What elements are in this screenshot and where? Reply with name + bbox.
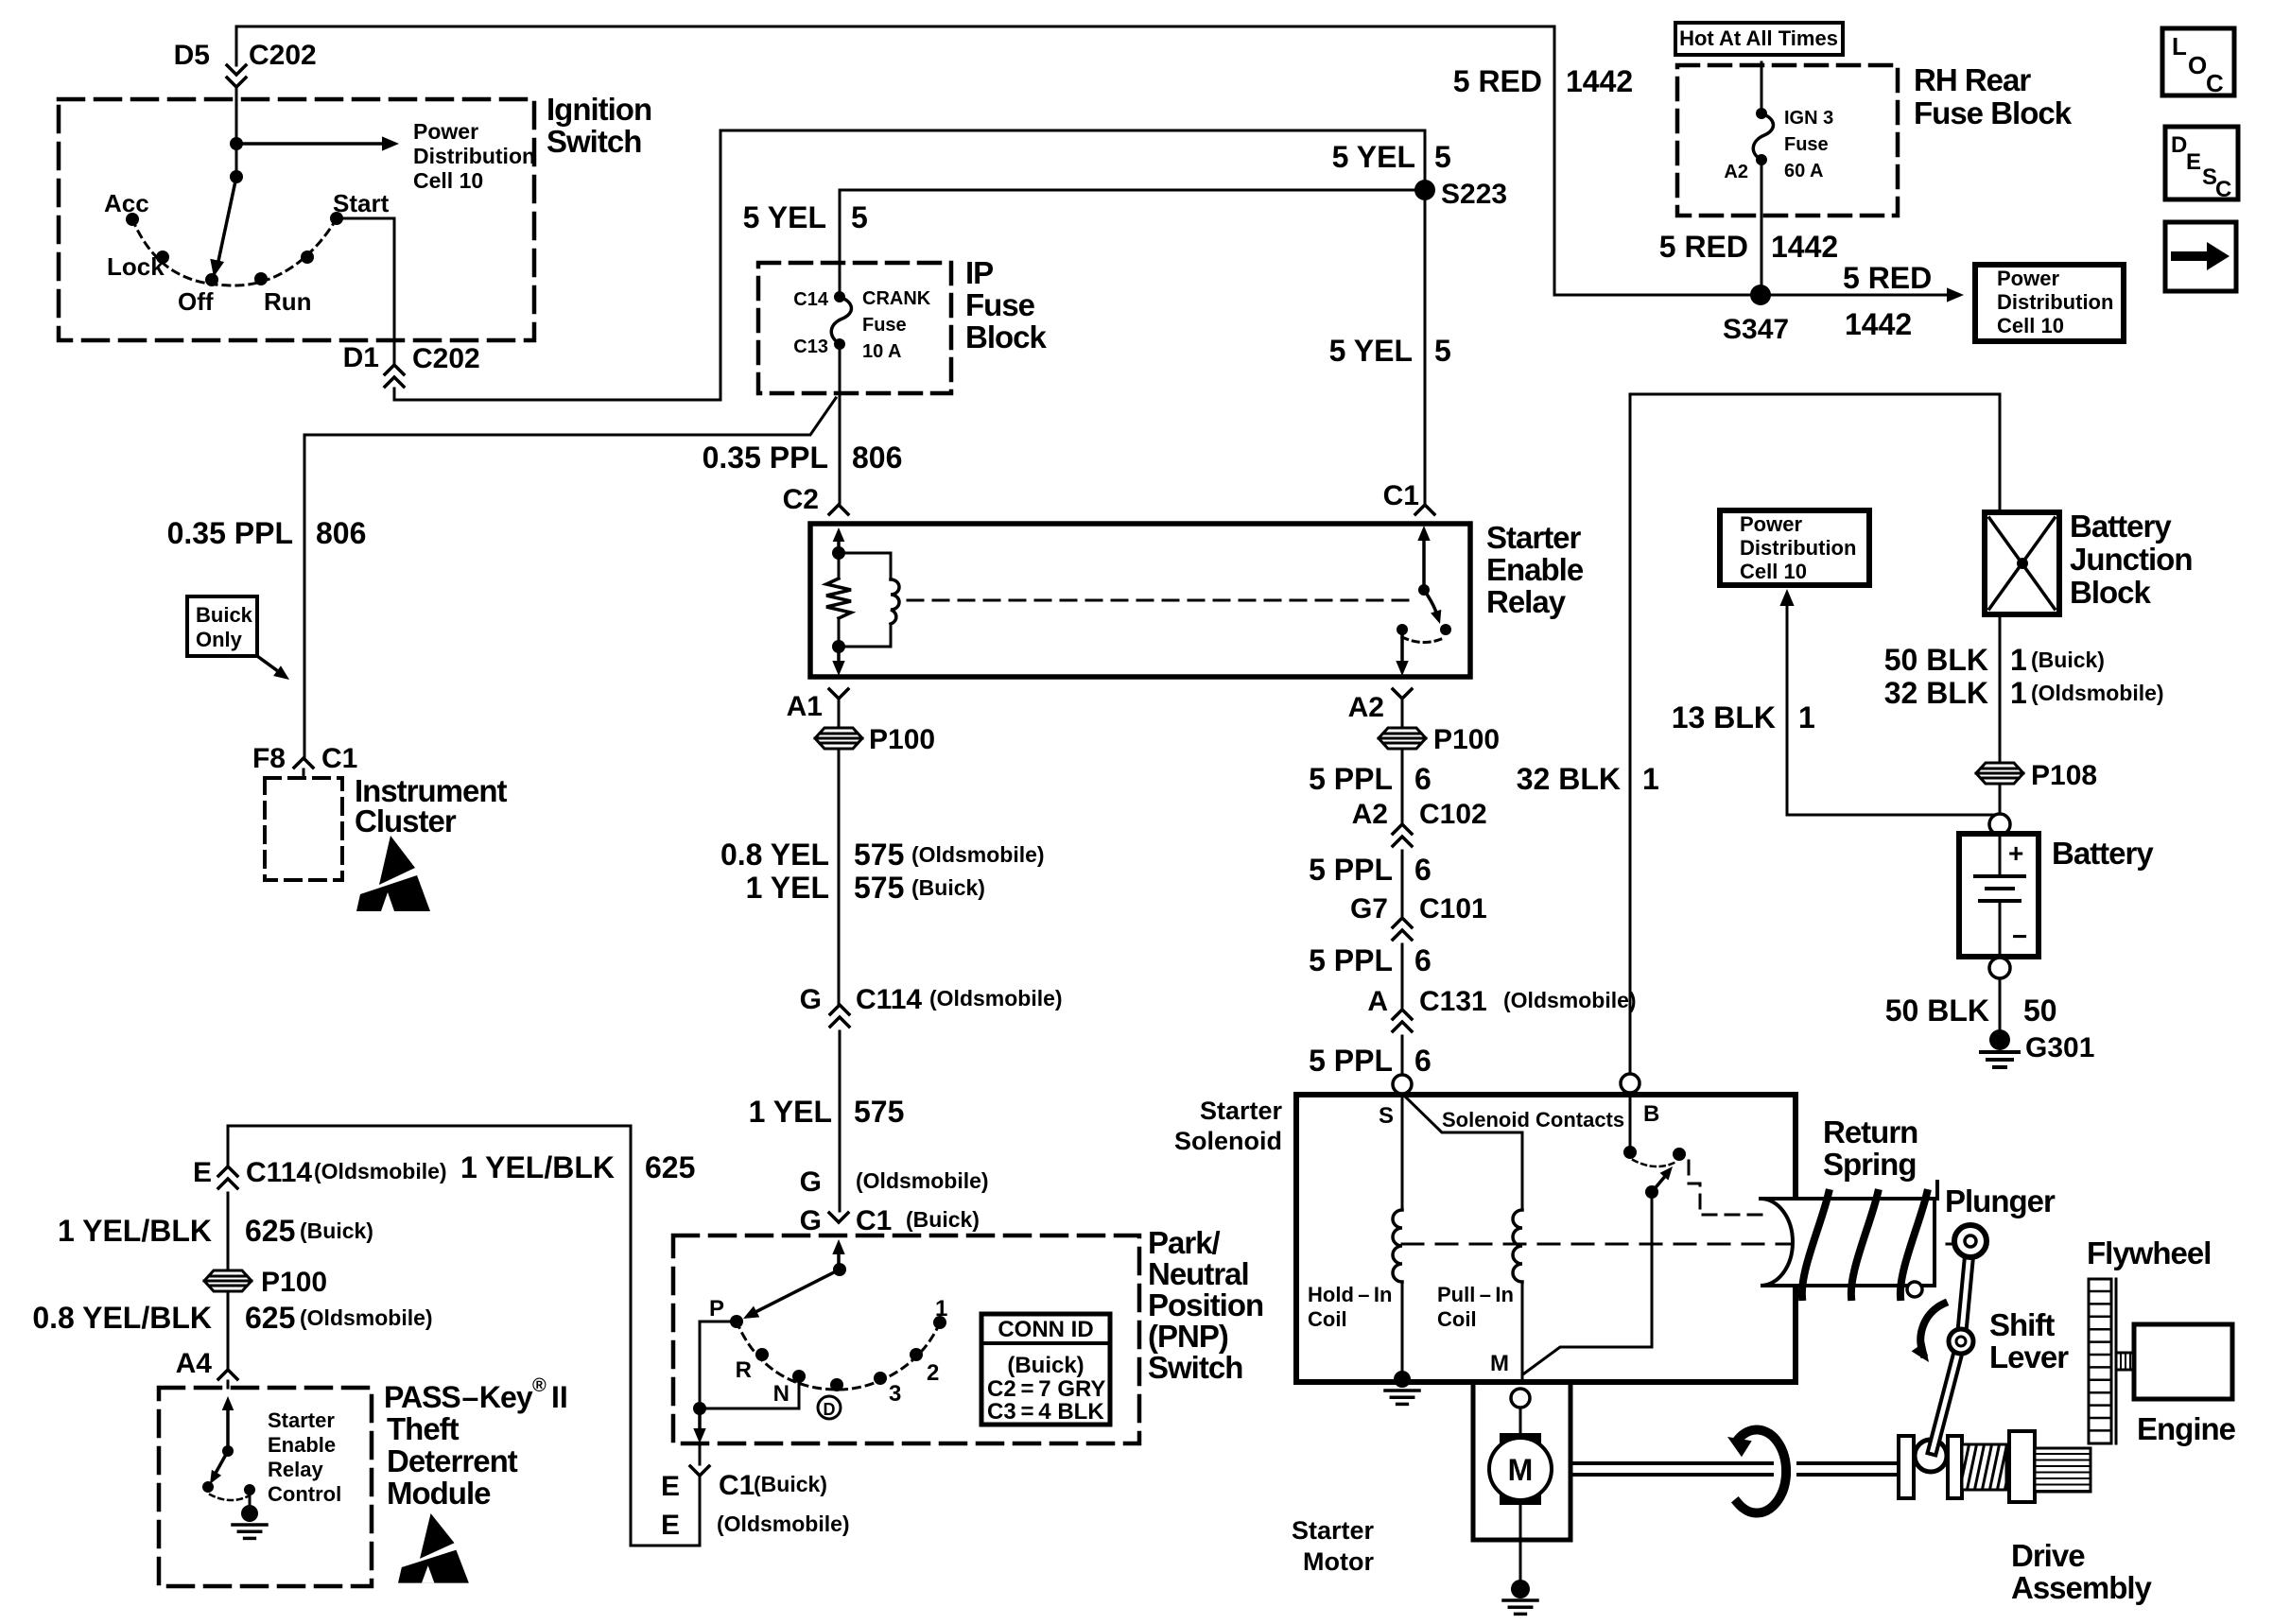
ESD symbol (instrument cluster) <box>356 836 430 911</box>
label R (PNP) <box>736 1357 752 1383</box>
connector: relay A1 chevron <box>829 689 848 699</box>
label (Oldsmobile) (PNP out) <box>717 1512 850 1536</box>
wire: C114 to P100 (1 YEL/BLK) <box>227 1193 230 1270</box>
svg-text:Fuse: Fuse <box>1784 134 1829 155</box>
wire: P contact to output <box>700 1322 730 1408</box>
svg-text:Buick: Buick <box>196 603 253 627</box>
label C101 <box>1419 893 1487 924</box>
svg-text:Run: Run <box>264 287 312 316</box>
connector C101 pin G7 (double chevron) <box>1393 918 1412 940</box>
arrow: Buick Only callout <box>257 656 289 680</box>
label G7 (C101) <box>1350 893 1388 924</box>
contact D <box>830 1378 843 1391</box>
label 0.35 PPL (instrument cluster branch) <box>167 516 293 550</box>
label 1 YEL/BLK (loop top) <box>460 1150 615 1184</box>
label 5 (below S223) <box>1434 334 1451 368</box>
wire: pull-in coil feed <box>1521 1132 1524 1210</box>
label 2 (PNP) <box>927 1360 939 1386</box>
label 5 RED (top right) <box>1453 64 1542 98</box>
spring end loop <box>1907 1282 1922 1297</box>
svg-text:B: B <box>1643 1101 1659 1127</box>
label Starter Enable Relay <box>1486 520 1584 619</box>
svg-text:C: C <box>2215 177 2231 202</box>
svg-text:1442: 1442 <box>1845 307 1912 341</box>
svg-text:Battery: Battery <box>2052 836 2154 871</box>
svg-text:L: L <box>2172 32 2187 60</box>
svg-text:Acc: Acc <box>104 189 149 217</box>
wire: junction block to P108 (50/32 BLK) <box>1999 614 2002 815</box>
relay coil output arrow (A1 side) <box>832 647 844 676</box>
svg-text:®: ® <box>532 1375 547 1396</box>
label RH Rear Fuse Block <box>1914 62 2073 130</box>
label CONN ID <box>998 1317 1093 1342</box>
svg-text:1: 1 <box>2010 643 2027 677</box>
svg-text:G: G <box>800 1166 822 1198</box>
ignition switch dashed box <box>59 99 534 340</box>
svg-text:(Buick): (Buick) <box>300 1218 373 1243</box>
leader: S to pull-in coil <box>1403 1095 1522 1132</box>
ESD symbol (PASS-Key II) <box>398 1513 469 1583</box>
svg-text:1 YEL/BLK: 1 YEL/BLK <box>58 1214 212 1248</box>
label (Oldsmobile) (32 BLK row) <box>2031 681 2164 705</box>
svg-text:F8: F8 <box>252 743 286 774</box>
svg-text:R: R <box>736 1357 752 1383</box>
starter motor enclosure <box>1473 1382 1570 1540</box>
svg-text:Fuse: Fuse <box>965 287 1035 322</box>
svg-text:(Buick): (Buick) <box>911 875 985 900</box>
label Instrument Cluster <box>355 773 508 838</box>
label 1 YEL (row3) <box>749 1095 832 1129</box>
label Starter Solenoid <box>1174 1097 1282 1155</box>
label Engine <box>2137 1411 2236 1446</box>
label C3 = 4 BLK <box>987 1399 1104 1425</box>
label 6 (row4) <box>1414 1044 1431 1078</box>
svg-text:Pull – In: Pull – In <box>1437 1283 1514 1306</box>
wire: IGN 3 fuse to S347 (5 RED) <box>1761 160 1763 295</box>
svg-text:Distribution: Distribution <box>413 144 535 168</box>
label 50 BLK (Buick row) <box>1884 643 1988 677</box>
contact 2 <box>910 1348 923 1361</box>
relay switch arm <box>1424 590 1441 624</box>
contact: PASS-Key moving <box>202 1481 214 1493</box>
svg-text:Lever: Lever <box>1989 1339 2069 1374</box>
label 575 (row2) <box>854 871 904 905</box>
svg-text:(Oldsmobile): (Oldsmobile) <box>911 842 1045 867</box>
label Park/Neutral Position (PNP) Switch <box>1148 1225 1263 1385</box>
pin C13 of CRANK fuse <box>834 338 845 350</box>
svg-text:CRANK: CRANK <box>862 288 931 309</box>
wire: C114 to PNP switch (1 YEL) <box>839 1031 842 1211</box>
svg-text:C1: C1 <box>719 1470 755 1501</box>
svg-text:S223: S223 <box>1441 179 1507 210</box>
svg-text:Drive: Drive <box>2011 1538 2085 1573</box>
label C14 <box>793 289 829 310</box>
label 5 PPL (row4) <box>1309 1044 1393 1078</box>
flywheel ring gear <box>2089 1279 2116 1443</box>
connector: relay C2 chevron <box>829 505 848 514</box>
svg-text:5 PPL: 5 PPL <box>1309 943 1393 977</box>
svg-text:5 PPL: 5 PPL <box>1309 853 1393 887</box>
svg-text:G: G <box>800 984 822 1015</box>
svg-text:5 RED: 5 RED <box>1843 261 1932 295</box>
connector C1 pin F8 (instrument cluster) <box>294 758 313 778</box>
svg-text:1: 1 <box>2010 676 2027 710</box>
wire: S223 to relay C1 (5 YEL) <box>1424 190 1427 503</box>
label E (C1 Buick row) <box>661 1471 680 1502</box>
svg-text:5 YEL: 5 YEL <box>1329 334 1413 368</box>
svg-text:50 BLK: 50 BLK <box>1885 993 1989 1028</box>
shift lever arm <box>1933 1241 1970 1450</box>
label PASS-Key II Theft Deterrent Module <box>384 1375 568 1511</box>
label Hot At All Times <box>1679 26 1838 50</box>
wire: moving contact to M <box>1524 1192 1652 1373</box>
svg-text:C1: C1 <box>856 1205 892 1236</box>
Hot At All Times box <box>1675 23 1843 55</box>
svg-text:Power: Power <box>1740 512 1802 536</box>
IP fuse block dashed box <box>758 263 951 393</box>
svg-text:P108: P108 <box>2031 760 2097 791</box>
hold-in coil <box>1393 1210 1402 1282</box>
svg-text:D1: D1 <box>343 342 379 373</box>
svg-text:C1: C1 <box>1383 480 1419 511</box>
label 1442 (top right) <box>1566 64 1633 98</box>
contact: PASS-Key fixed <box>244 1484 255 1495</box>
label IP Fuse Block <box>965 255 1048 354</box>
wire: N contact to output <box>700 1376 799 1408</box>
label (Oldsmobile) (row1) <box>911 842 1045 867</box>
svg-text:Starter: Starter <box>268 1408 335 1432</box>
DESC icon box <box>2165 127 2238 202</box>
label Ignition Switch <box>547 92 651 159</box>
ignition switch position arc (dashed) <box>132 218 337 285</box>
svg-text:Distribution: Distribution <box>1997 290 2113 314</box>
collar (mid) <box>1948 1436 1962 1498</box>
svg-text:Engine: Engine <box>2137 1411 2236 1446</box>
svg-text:Starter: Starter <box>1486 520 1582 555</box>
node S347 <box>1750 285 1771 305</box>
motor shaft <box>1570 1463 1899 1475</box>
svg-text:6: 6 <box>1414 853 1431 887</box>
svg-text:C114: C114 <box>856 984 922 1015</box>
svg-text:E: E <box>2186 149 2201 175</box>
svg-text:625: 625 <box>245 1301 295 1335</box>
label 1442 (below RH fuse block) <box>1771 230 1838 264</box>
svg-text:10 A: 10 A <box>862 341 902 362</box>
fuse IGN 3 60A (S-curve) <box>1753 113 1773 160</box>
label Solenoid Contacts <box>1442 1108 1624 1132</box>
solenoid moving contact arm <box>1645 1166 1673 1199</box>
label G (Oldsmobile row) <box>800 1166 822 1198</box>
svg-text:32 BLK: 32 BLK <box>1517 762 1621 796</box>
label C131 <box>1419 986 1487 1017</box>
svg-text:P100: P100 <box>869 724 935 755</box>
label A2 (IGN 3 fuse) <box>1724 162 1748 182</box>
svg-text:Cell 10: Cell 10 <box>413 168 483 193</box>
PNP wiper arm <box>743 1270 840 1319</box>
label D1 <box>343 342 379 373</box>
connector: relay C1 chevron <box>1415 505 1434 514</box>
label 5 (above IP fuse block) <box>851 200 868 234</box>
svg-text:Fuse Block: Fuse Block <box>1914 95 2073 130</box>
svg-text:C1: C1 <box>321 743 357 774</box>
label Starter Motor <box>1292 1516 1375 1576</box>
node: ignition feed junction <box>230 137 243 150</box>
label D5 <box>174 40 210 71</box>
label C202 (at D5) <box>249 40 317 71</box>
PNP position arc (dashed) <box>737 1322 940 1390</box>
svg-text:6: 6 <box>1414 1044 1431 1078</box>
label 13 BLK <box>1672 700 1776 734</box>
svg-text:Cluster: Cluster <box>355 803 457 838</box>
svg-text:575: 575 <box>854 871 904 905</box>
Power Distribution Cell 10 box (top right) <box>1975 265 2124 341</box>
PASS-Key II module dashed box <box>159 1388 372 1586</box>
dashed arc: relay contact throw <box>1402 637 1446 643</box>
svg-text:575: 575 <box>854 838 904 872</box>
svg-text:(Oldsmobile): (Oldsmobile) <box>2031 681 2164 705</box>
svg-text:Starter: Starter <box>1200 1097 1283 1125</box>
motor brush bottom <box>1500 1480 1541 1505</box>
svg-text:13 BLK: 13 BLK <box>1672 700 1776 734</box>
svg-text:C2 = 7 GRY: C2 = 7 GRY <box>987 1376 1105 1402</box>
svg-text:M: M <box>1508 1453 1534 1487</box>
label G (C1 Buick row) <box>800 1205 822 1236</box>
svg-text:5 RED: 5 RED <box>1453 64 1542 98</box>
wire: PNP E output loop to PASS-Key II <box>228 1126 700 1546</box>
dashed link: contacts to plunger <box>1689 1161 1769 1215</box>
connector C102 pin A2 (double chevron) <box>1393 824 1412 846</box>
wire: A1 to P100 <box>838 699 841 728</box>
label B (solenoid) <box>1643 1101 1659 1127</box>
connector C114 pin E (double chevron) <box>218 1166 237 1188</box>
contact Lock <box>156 251 169 264</box>
label P (PNP) <box>709 1296 724 1322</box>
svg-text:1 YEL: 1 YEL <box>746 871 829 905</box>
svg-text:(Oldsmobile): (Oldsmobile) <box>300 1305 433 1330</box>
svg-text:0.8 YEL: 0.8 YEL <box>720 838 829 872</box>
label Start <box>333 189 390 217</box>
label Lock <box>107 252 165 281</box>
label E (C114) <box>193 1157 212 1188</box>
svg-text:Module: Module <box>387 1476 491 1511</box>
label 5 (above S223) <box>1434 140 1451 174</box>
Power Distribution Cell 10 box (battery side) <box>1720 510 1869 585</box>
contact mid (between Run and Start) <box>301 251 314 264</box>
label 32 BLK (B wire) <box>1517 762 1621 796</box>
label 6 (row3) <box>1414 943 1431 977</box>
label 5 RED (S347 arrow) <box>1843 261 1932 295</box>
svg-text:0.35 PPL: 0.35 PPL <box>167 516 293 550</box>
label 5 YEL (above S223) <box>1332 140 1415 174</box>
svg-text:P100: P100 <box>261 1267 327 1298</box>
wire: D5 into ignition switch <box>235 26 238 144</box>
instrument cluster dashed box <box>265 778 342 880</box>
contact Run <box>254 272 268 285</box>
svg-text:(Buick): (Buick) <box>906 1207 980 1232</box>
label A4 <box>176 1348 213 1379</box>
wire: hot feed into IGN 3 fuse <box>1761 62 1763 113</box>
motor brush top <box>1500 1433 1541 1458</box>
relay coil input arrow (C2 side) <box>833 527 845 553</box>
contact: relay fixed side <box>1397 624 1408 635</box>
wire: P100 to C114 (yellow wire) <box>838 749 841 1005</box>
svg-text:E: E <box>193 1157 212 1188</box>
svg-text:Block: Block <box>2070 575 2152 610</box>
pass-through P108 <box>1976 763 2023 784</box>
wire: S to hold-in coil <box>1401 1095 1404 1210</box>
svg-text:Hot At All Times: Hot At All Times <box>1679 26 1838 50</box>
svg-text:IP: IP <box>965 255 993 290</box>
label C1 (Buick row PNP) <box>719 1470 755 1501</box>
label Power Distribution Cell 10 (top right) <box>1997 267 2113 337</box>
label - (battery) <box>2012 922 2027 951</box>
svg-text:806: 806 <box>316 516 366 550</box>
wire: P100 to C102 (5 PPL) <box>1401 749 1404 824</box>
relay output arrow (A2 side) <box>1396 635 1408 676</box>
fuse CRANK 10A (S-curve) <box>831 297 851 344</box>
connector C202 pin D5 (double chevron) <box>227 65 246 87</box>
PASS-Key internal ground <box>233 1490 267 1538</box>
svg-text:M: M <box>1490 1351 1509 1376</box>
svg-text:C202: C202 <box>249 40 317 71</box>
contact Acc <box>126 213 139 226</box>
rotation arrow (shift lever) <box>1912 1304 1944 1362</box>
label E (Oldsmobile row) <box>661 1510 680 1541</box>
svg-text:C13: C13 <box>793 337 828 357</box>
label 625 (Buick row) <box>245 1214 295 1248</box>
label 0.8 YEL (row1) <box>720 838 829 872</box>
svg-text:A4: A4 <box>176 1348 213 1379</box>
node: PASS-Key switch pivot <box>222 1445 234 1457</box>
svg-text:Enable: Enable <box>1486 552 1584 587</box>
svg-text:Hold – In: Hold – In <box>1308 1283 1392 1306</box>
svg-text:A: A <box>1367 986 1388 1017</box>
wire: solenoid B to battery junction block (32 BLK) <box>1630 394 2000 1074</box>
dashed arc: PASS-Key contact throw <box>210 1494 248 1500</box>
label F8 <box>252 743 286 774</box>
ground (hold-in coil) <box>1385 1371 1419 1404</box>
svg-text:60 A: 60 A <box>1784 161 1824 181</box>
label C102 <box>1419 799 1487 830</box>
label Hold-In Coil <box>1308 1283 1392 1331</box>
pull-in coil <box>1513 1210 1522 1282</box>
contact R <box>755 1348 769 1361</box>
svg-text:D: D <box>2171 132 2187 158</box>
label Flywheel <box>2087 1235 2211 1270</box>
svg-text:Distribution: Distribution <box>1740 536 1856 560</box>
label Plunger <box>1945 1183 2056 1218</box>
label Pull-In Coil <box>1437 1283 1514 1331</box>
svg-text:Switch: Switch <box>547 124 641 159</box>
label 1 YEL (row2) <box>746 871 829 905</box>
svg-text:Shift: Shift <box>1989 1307 2055 1342</box>
svg-text:A2: A2 <box>1352 799 1388 830</box>
svg-text:5: 5 <box>851 200 868 234</box>
svg-text:N: N <box>773 1381 789 1407</box>
contact: solenoid B side <box>1623 1093 1637 1159</box>
label 1 (13 BLK) <box>1798 700 1815 734</box>
svg-text:P: P <box>709 1296 724 1322</box>
PNP output arrow <box>693 1408 705 1443</box>
battery cell symbol <box>1975 835 2024 956</box>
svg-text:3: 3 <box>889 1381 901 1407</box>
rotation arrow (shaft) <box>1727 1430 1786 1513</box>
connector C202 pin D1 (double chevron) <box>385 365 404 387</box>
svg-text:Control: Control <box>268 1482 341 1506</box>
RH rear fuse block dashed box <box>1677 65 1898 216</box>
label C1 (PNP) <box>856 1205 892 1236</box>
label A1 <box>787 691 823 722</box>
svg-text:50: 50 <box>2023 993 2057 1028</box>
svg-text:Deterrent: Deterrent <box>387 1443 518 1478</box>
pin A2 of IGN 3 fuse <box>1756 154 1767 165</box>
svg-text:Cell 10: Cell 10 <box>1997 314 2064 337</box>
svg-text:Off: Off <box>178 287 214 316</box>
label (Buick) (50 BLK row) <box>2031 648 2105 672</box>
label (Oldsmobile) (C114) <box>929 986 1063 1011</box>
label 5 RED (below RH fuse block) <box>1659 230 1748 264</box>
svg-text:5 YEL: 5 YEL <box>743 200 826 234</box>
label C114 (A1 wire) <box>856 984 922 1015</box>
label 5 PPL (row1) <box>1309 762 1393 796</box>
shift lever mid pivot <box>1949 1329 1973 1354</box>
label P100 (A2 wire) <box>1433 724 1500 755</box>
label 6 (row1) <box>1414 762 1431 796</box>
connector: PASS-Key pin A4 chevron <box>218 1370 237 1388</box>
svg-text:5 YEL: 5 YEL <box>1332 140 1415 174</box>
svg-text:G7: G7 <box>1350 893 1388 924</box>
svg-text:Plunger: Plunger <box>1945 1183 2056 1218</box>
label 625 (loop top) <box>645 1150 695 1184</box>
label (Buick) (C1 row) <box>906 1207 980 1232</box>
terminal: battery positive <box>1989 814 2010 835</box>
svg-text:Relay: Relay <box>268 1458 323 1481</box>
label Shift Lever <box>1989 1307 2069 1374</box>
node: relay coil bottom <box>832 640 845 653</box>
label (Buick) (row2) <box>911 875 985 900</box>
svg-text:32 BLK: 32 BLK <box>1884 676 1988 710</box>
terminal M <box>1511 1389 1530 1408</box>
svg-text:D: D <box>824 1400 836 1419</box>
svg-text:Lock: Lock <box>107 252 165 281</box>
wire: branch to instrument cluster (0.35 PPL) <box>304 398 836 758</box>
svg-text:0.8 YEL/BLK: 0.8 YEL/BLK <box>32 1301 212 1335</box>
label + (battery) <box>2008 838 2023 868</box>
wire: 13 BLK 1 arrow to Power Distribution Cell 10 <box>1779 589 2000 815</box>
svg-text:(Oldsmobile): (Oldsmobile) <box>929 986 1063 1011</box>
label C13 <box>793 337 828 357</box>
svg-text:(Oldsmobile): (Oldsmobile) <box>856 1168 989 1193</box>
label 5 YEL (above IP fuse block) <box>743 200 826 234</box>
label (Oldsmobile) (E C114) <box>314 1159 447 1183</box>
label C114 (PASS-Key wire) <box>246 1157 312 1188</box>
label 1 (Oldsmobile row) <box>2010 676 2027 710</box>
PASS-Key switch arm <box>210 1451 228 1484</box>
label (Buick) (PNP out) <box>754 1472 827 1496</box>
svg-text:Enable: Enable <box>268 1433 336 1457</box>
svg-text:C2: C2 <box>783 484 819 515</box>
wire: motor to ground <box>1519 1505 1522 1581</box>
connector: PNP switch pin G chevron <box>829 1213 848 1222</box>
label C1 (relay pin) <box>1383 480 1419 511</box>
dashed link: relay coil to contacts <box>908 599 1411 602</box>
label 5 PPL (row2) <box>1309 853 1393 887</box>
svg-text:6: 6 <box>1414 943 1431 977</box>
label 1 (PNP) <box>935 1296 947 1322</box>
next-page arrow icon box <box>2165 222 2236 291</box>
label S223 <box>1441 179 1507 210</box>
wire: S223 to CRANK fuse C14 <box>840 190 1425 297</box>
